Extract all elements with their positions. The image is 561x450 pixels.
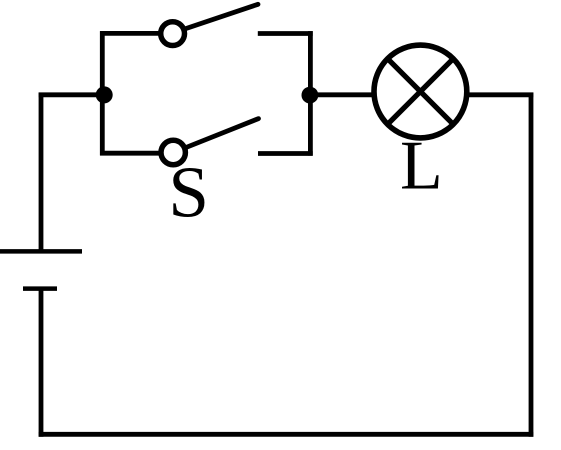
switch S bottom contact: blade (open) [187,119,259,148]
wire: parallel-section right vertical [308,31,313,156]
lamp L: cross diagonal NE-SW [387,58,454,125]
switch S top contact: pivot circle [161,22,185,46]
wire: top branch right stub [258,31,313,36]
wire: bottom return [39,432,534,437]
battery: long positive plate [0,249,82,254]
switch S bottom contact: pivot circle [161,140,185,164]
battery: short negative plate [23,286,57,291]
wire: bottom branch right stub [258,151,313,156]
wire: middle horizontal from battery branch to node A [39,92,104,97]
wire: left vertical from node A branch down to battery [39,93,44,252]
svg-text:L: L [400,127,443,204]
svg-text:S: S [168,151,209,232]
wire: right vertical side [529,93,534,437]
wire: node B to lamp [308,92,373,97]
wire: lamp to right vertical [467,92,533,97]
switch S top contact: blade (open) [186,4,258,28]
lamp L: cross diagonal NW-SE [387,58,454,125]
wire: bottom branch lead to switch pivot [100,151,161,156]
wire: battery to bottom return [39,289,44,437]
node B junction dot [302,87,319,104]
node A junction dot [96,86,113,103]
wire: top branch lead to switch pivot [100,31,161,36]
wire: parallel-section left vertical [100,31,105,155]
lamp L: envelope circle [374,45,467,138]
